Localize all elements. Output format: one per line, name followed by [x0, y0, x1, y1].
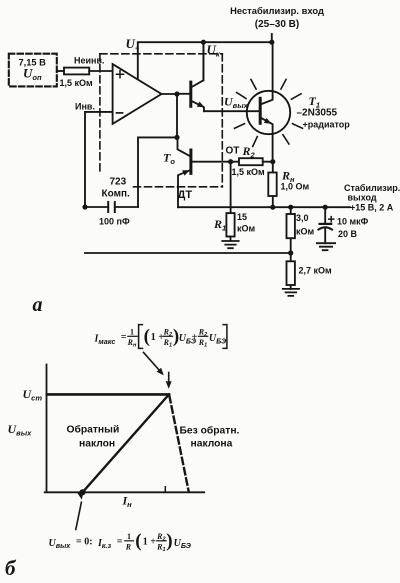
svg-text:20 В: 20 В	[338, 229, 358, 239]
svg-text:723: 723	[110, 177, 127, 188]
wire ОТ divider down to R1	[230, 162, 232, 213]
graph axes	[45, 365, 205, 493]
node op-amp output	[174, 91, 179, 96]
svg-text:ДТ: ДТ	[178, 189, 193, 201]
formula Iмакс	[94, 325, 228, 349]
wire to op-amp + input	[89, 70, 112, 72]
resistor 2,7 кОм	[287, 253, 333, 289]
svg-text:1,5 кОм: 1,5 кОм	[60, 78, 94, 88]
heat rays around T1	[235, 79, 303, 146]
svg-text:–2N3055: –2N3055	[297, 107, 338, 118]
resistor Rн 1,0 Ом	[268, 162, 309, 208]
wire error amp output down to node	[176, 94, 178, 137]
capacitor 100 пФ	[85, 202, 138, 227]
arrow formula to knee (diagonal)	[144, 352, 164, 375]
svg-text:R: R	[125, 542, 132, 551]
svg-text:= 0:: = 0:	[76, 536, 93, 547]
arrow from Iкз formula to dot	[76, 492, 84, 530]
transistor Q1 (723 output transistor)	[177, 42, 204, 111]
node cap top	[323, 205, 328, 210]
wire reference to R series	[57, 70, 64, 72]
node divider top	[288, 205, 293, 210]
resistor R2 1,5 кОм	[231, 144, 273, 177]
svg-text:кОм: кОм	[296, 227, 315, 237]
node ОТ	[228, 159, 233, 164]
foldback rising line	[83, 394, 170, 492]
wire Комп. pin with 100 пФ path	[138, 137, 177, 207]
svg-text:1 +: 1 +	[151, 332, 165, 343]
svg-text:наклона: наклона	[191, 438, 233, 449]
svg-text:=: =	[117, 536, 123, 547]
label Обратный наклон	[67, 423, 120, 449]
ground R1	[222, 237, 238, 249]
feedback rail to Инв	[85, 252, 291, 254]
transistor То (current limiter)	[163, 137, 231, 207]
formula Iкз	[49, 531, 192, 554]
resistor R1 15 кОм	[213, 212, 256, 237]
dashed no-foldback line	[169, 396, 188, 491]
svg-text:Стабилизир.: Стабилизир.	[344, 183, 400, 193]
svg-text:(25–30 В): (25–30 В)	[255, 19, 299, 30]
output rail	[178, 206, 350, 208]
unregulated input terminal	[271, 34, 273, 42]
x tick	[164, 487, 166, 493]
transistor T1 2N3055 pass transistor	[204, 42, 290, 162]
ground capacitor	[317, 243, 335, 250]
svg-text:Комп.: Комп.	[102, 188, 131, 199]
svg-text:100 пФ: 100 пФ	[99, 217, 130, 227]
wire Инв. input	[75, 101, 113, 207]
text Стабилизир. выход +15 В, 2 А	[344, 183, 400, 213]
svg-text:Обратный: Обратный	[67, 423, 120, 435]
node Rн bottom	[270, 205, 275, 210]
node Uк	[201, 40, 206, 45]
svg-text:+15 В, 2 А: +15 В, 2 А	[350, 203, 394, 213]
label T1 2N3055 радиатор	[297, 94, 351, 130]
node Инв/cap	[82, 204, 87, 209]
svg-text:3,0: 3,0	[296, 213, 309, 223]
svg-text:Инв.: Инв.	[75, 101, 95, 111]
wire op-amp output	[162, 93, 178, 95]
svg-text:выход: выход	[348, 193, 377, 203]
label 723 Комп.	[102, 177, 131, 200]
svg-text:кОм: кОм	[237, 224, 256, 234]
svg-text:1: 1	[130, 327, 134, 336]
svg-text:10 мкФ: 10 мкФ	[337, 217, 369, 227]
svg-text:): )	[166, 531, 172, 552]
arrow vertical at knee	[166, 373, 172, 389]
svg-text:15: 15	[237, 212, 247, 222]
ground 2,7 кОм	[283, 289, 299, 296]
svg-text:+радиатор: +радиатор	[303, 120, 351, 130]
capacitor 10 мкФ 20 В electrolytic	[318, 207, 368, 243]
node Т1 emitter / Rн top	[270, 159, 275, 164]
node divider midpoint	[288, 250, 293, 255]
label Без обратн. наклона	[180, 424, 240, 449]
resistor 3,0 кОм	[287, 207, 315, 253]
svg-text:(: (	[135, 531, 141, 552]
svg-text:(: (	[144, 326, 150, 347]
text Нестабилизир. вход (25-30 В)	[230, 5, 324, 30]
svg-text:ОТ: ОТ	[226, 145, 240, 156]
svg-text:1,0 Ом: 1,0 Ом	[281, 182, 310, 192]
svg-text:2,7 кОм: 2,7 кОм	[299, 265, 333, 275]
723 IC dashed boundary	[100, 54, 222, 187]
voltage reference source Uоп 7,15 В	[9, 54, 57, 87]
svg-text:Без обратн.: Без обратн.	[180, 424, 240, 436]
node comp/limit	[174, 135, 179, 140]
svg-text:б: б	[5, 556, 17, 580]
node input	[269, 40, 274, 45]
wire U+ supply to rail	[126, 36, 272, 79]
Uст regulation level line	[47, 393, 169, 396]
svg-text:наклон: наклон	[79, 438, 115, 449]
svg-text:1,5 кОм: 1,5 кОм	[232, 167, 266, 177]
svg-text:1: 1	[127, 532, 131, 541]
wire Uк collector drop	[203, 42, 220, 80]
knee dot short-circuit point	[79, 489, 85, 495]
svg-text:+: +	[192, 332, 198, 343]
svg-text:=: =	[121, 332, 127, 343]
resistor 1,5 кОм (series, Неинв.)	[60, 56, 105, 88]
svg-text:Нестабилизир. вход: Нестабилизир. вход	[230, 5, 324, 16]
svg-text:а: а	[33, 294, 43, 316]
svg-text:1 +: 1 +	[143, 536, 157, 547]
op-amp U1 (723 error amplifier)	[113, 64, 162, 124]
